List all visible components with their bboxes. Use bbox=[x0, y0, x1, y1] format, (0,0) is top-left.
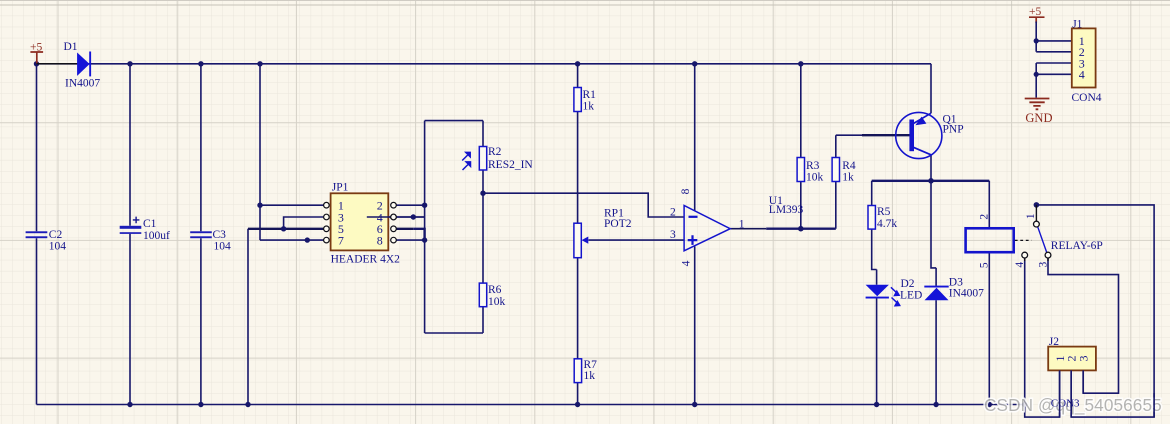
wire: relay coil pin2 lead bbox=[988, 181, 990, 229]
junction dots on bottom rail bbox=[127, 402, 1027, 407]
wire: black base segment bbox=[862, 134, 910, 136]
wire: photoresistor loop bottom bbox=[425, 332, 483, 334]
svg-text:100uf: 100uf bbox=[143, 230, 170, 242]
capacitor C2 104 bbox=[26, 229, 67, 253]
wire: J2 pin stubs and right net overlay bbox=[1060, 370, 1155, 417]
LED D2 bbox=[866, 278, 923, 306]
wire: JP1 pin1/pin7 feed from top rail bbox=[260, 64, 324, 240]
connector J2 CON3 bbox=[1048, 336, 1096, 409]
svg-text:J1: J1 bbox=[1072, 18, 1082, 30]
svg-text:2: 2 bbox=[979, 214, 991, 220]
junction dots around JP1 bbox=[257, 203, 427, 243]
capacitor C1 100uf (electrolytic, + plate) bbox=[120, 217, 170, 243]
svg-text:LM393: LM393 bbox=[769, 204, 804, 216]
resistor R1 1k bbox=[574, 88, 596, 113]
svg-text:J2: J2 bbox=[1049, 336, 1059, 348]
svg-text:R6: R6 bbox=[488, 284, 502, 296]
wire: collector node horizontal (thick) bbox=[413, 181, 989, 240]
wire: relay contact 3 to J2 pin3 bbox=[1048, 258, 1119, 393]
wire: JP1 right loop vertical bbox=[424, 121, 426, 333]
svg-text:8: 8 bbox=[680, 188, 692, 194]
svg-text:2: 2 bbox=[670, 206, 676, 218]
svg-text:C1: C1 bbox=[143, 218, 157, 230]
wire: R2-R6 chain bbox=[482, 121, 484, 333]
wire: D3 cathode lead to ground rail bbox=[935, 300, 937, 404]
svg-text:R4: R4 bbox=[842, 160, 856, 172]
junction dots on top rail bbox=[34, 61, 804, 66]
potentiometer RP1 POT2 bbox=[574, 208, 632, 258]
svg-text:RELAY-6P: RELAY-6P bbox=[1051, 240, 1103, 252]
svg-text:POT2: POT2 bbox=[604, 218, 632, 230]
connector JP1 HEADER 4X2 bbox=[324, 182, 401, 266]
wire: left rail through C2 bbox=[36, 64, 38, 405]
wire: JP1 pin3 link bbox=[284, 217, 324, 229]
svg-text:R1: R1 bbox=[583, 89, 597, 101]
relay contacts 1/3/4 bbox=[1014, 205, 1051, 268]
resistor R6 10k bbox=[479, 283, 505, 308]
ground GND symbol bbox=[1025, 99, 1053, 125]
capacitor C3 104 bbox=[190, 229, 231, 253]
junction dot relay contact1 net bbox=[1034, 202, 1040, 208]
wire: relay coil pin5 lead to ground rail bbox=[988, 252, 990, 404]
wire: +5 to J1 pins 1,2 bbox=[1036, 22, 1072, 98]
junction dot R2/R6 node bbox=[480, 191, 485, 196]
wire: R3 pullup bbox=[800, 64, 802, 229]
wire: JP1 pin5 branch to ground rail bbox=[247, 229, 249, 405]
wire: R5 top lead bbox=[871, 181, 873, 206]
svg-text:R5: R5 bbox=[877, 206, 891, 218]
svg-text:8: 8 bbox=[377, 233, 383, 247]
svg-text:PNP: PNP bbox=[943, 123, 964, 135]
svg-text:1k: 1k bbox=[842, 172, 854, 184]
svg-text:D1: D1 bbox=[64, 41, 78, 53]
wire: collector down to node bbox=[930, 155, 932, 181]
svg-text:GND: GND bbox=[1025, 111, 1052, 125]
svg-text:3: 3 bbox=[670, 229, 676, 241]
wire: GND to J1 pins 3,4 bbox=[1036, 63, 1072, 98]
wire: C1 branch bbox=[129, 64, 131, 405]
wire: comparator inverting input bbox=[483, 193, 684, 217]
wire: JP1 pin4 bbox=[367, 216, 425, 218]
svg-text:CON3: CON3 bbox=[1051, 397, 1080, 409]
svg-text:10k: 10k bbox=[488, 296, 506, 308]
svg-text:10k: 10k bbox=[806, 172, 824, 184]
svg-text:R2: R2 bbox=[488, 146, 502, 158]
diode D1 IN4007 bbox=[37, 41, 101, 89]
relay coil RELAY-6P bbox=[966, 214, 1103, 269]
svg-text:+5: +5 bbox=[1029, 6, 1041, 18]
svg-text:1k: 1k bbox=[583, 101, 595, 113]
svg-text:4: 4 bbox=[681, 260, 693, 266]
wire: relay contact 4 to J2 pin1 bbox=[1025, 258, 1060, 417]
svg-text:C2: C2 bbox=[49, 229, 63, 241]
resistor R7 1k bbox=[574, 359, 597, 383]
svg-text:4: 4 bbox=[1079, 68, 1085, 82]
photoresistor R2 RES2_IN bbox=[462, 146, 533, 171]
wire: thick black pin5 row bbox=[248, 135, 910, 229]
wire: JP1 pin2 bbox=[396, 204, 424, 206]
junction dot output node bbox=[798, 226, 804, 232]
wire: bottom ground rail bbox=[37, 404, 1025, 406]
wire: photoresistor loop top bbox=[425, 120, 483, 122]
svg-text:IN4007: IN4007 bbox=[65, 77, 100, 89]
wire: R1 / RP1 / R7 chain bbox=[577, 64, 579, 405]
junction dots J1 bbox=[1034, 38, 1039, 43]
wire: JP1 pin4 interior segment bbox=[367, 216, 425, 218]
svg-text:R3: R3 bbox=[806, 160, 820, 172]
svg-text:CON4: CON4 bbox=[1072, 92, 1102, 104]
transistor Q1 PNP bbox=[896, 112, 964, 158]
wire: base wire R4 corner to Q1 bbox=[836, 134, 910, 136]
wire: C3 branch bbox=[200, 64, 202, 405]
svg-text:5: 5 bbox=[979, 262, 991, 268]
svg-text:1: 1 bbox=[1025, 213, 1037, 219]
svg-text:LED: LED bbox=[900, 289, 922, 301]
svg-text:104: 104 bbox=[49, 241, 67, 253]
wire: op-amp output black segment bbox=[730, 228, 766, 230]
wire: op-amp pin 4 to ground bbox=[694, 246, 696, 404]
svg-text:HEADER 4X2: HEADER 4X2 bbox=[331, 253, 401, 265]
wire: top +5 rail bbox=[37, 64, 1155, 417]
resistor R3 10k bbox=[797, 158, 823, 184]
svg-text:1k: 1k bbox=[584, 370, 596, 382]
svg-text:104: 104 bbox=[214, 241, 232, 253]
junction dot collector node bbox=[928, 178, 934, 184]
wire: relay contact 1 net to J2 pin2 bbox=[1036, 205, 1154, 417]
wire: R4 chain bbox=[835, 135, 837, 229]
svg-text:4.7k: 4.7k bbox=[877, 218, 897, 230]
svg-text:D2: D2 bbox=[901, 278, 915, 290]
svg-text:IN4007: IN4007 bbox=[949, 288, 984, 300]
svg-text:4: 4 bbox=[1014, 262, 1026, 268]
wire: JP1 pin6 thick segment bbox=[413, 228, 424, 241]
resistor R4 1k bbox=[832, 158, 856, 184]
connector J1 CON4 bbox=[1072, 18, 1102, 104]
svg-text:1: 1 bbox=[739, 218, 745, 230]
svg-text:3: 3 bbox=[1076, 356, 1090, 362]
power +5 (top right, J1) bbox=[1029, 6, 1045, 23]
wire: thick pin6 segment bbox=[396, 228, 413, 230]
wire: collector node to D3 jog bbox=[931, 181, 936, 286]
power +5 (left) bbox=[30, 42, 43, 64]
diode D3 IN4007 bbox=[924, 276, 984, 300]
wire: emitter to top rail bbox=[930, 64, 932, 113]
svg-text:RES2_IN: RES2_IN bbox=[488, 159, 533, 171]
svg-text:7: 7 bbox=[338, 233, 344, 247]
resistor R5 4.7k bbox=[868, 206, 897, 231]
svg-text:C3: C3 bbox=[213, 229, 227, 241]
wire: op-amp pin 8 supply bbox=[694, 64, 696, 211]
wire: comparator non-inverting input bbox=[589, 239, 684, 241]
svg-text:3: 3 bbox=[1038, 261, 1050, 267]
wire: output node thick segment bbox=[766, 227, 836, 229]
wire: R5 to LED jog bbox=[872, 229, 877, 285]
wire: LED D2 lead to ground rail bbox=[876, 297, 878, 405]
op-amp U1 LM393 bbox=[670, 188, 804, 266]
svg-text:JP1: JP1 bbox=[332, 182, 349, 194]
wire: JP1 pin8 bbox=[396, 239, 424, 241]
svg-text:D3: D3 bbox=[949, 276, 963, 288]
